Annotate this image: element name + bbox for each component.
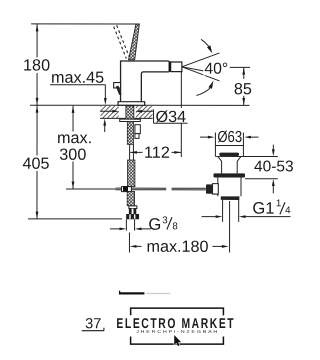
svg-text:40-53: 40-53 [254, 158, 294, 175]
svg-text:max.180: max.180 [146, 238, 208, 256]
svg-text:max.45: max.45 [51, 69, 104, 87]
svg-text:max.: max. [57, 129, 92, 147]
svg-text:3: 3 [162, 215, 168, 226]
svg-text:180: 180 [23, 57, 50, 75]
svg-text:112: 112 [144, 144, 170, 162]
svg-text:85: 85 [234, 80, 252, 98]
svg-text:37: 37 [85, 316, 101, 332]
svg-text:G: G [148, 215, 161, 234]
svg-text:405: 405 [23, 155, 50, 173]
svg-text:40°: 40° [204, 61, 228, 78]
svg-text:Ø63: Ø63 [217, 129, 242, 146]
svg-text:300: 300 [59, 146, 86, 164]
svg-text:4: 4 [285, 205, 291, 216]
svg-text:JHERCHPI-NZEGBAH: JHERCHPI-NZEGBAH [136, 329, 219, 334]
svg-text:G1: G1 [252, 199, 274, 218]
svg-text:1: 1 [276, 198, 281, 209]
svg-text:8: 8 [172, 221, 178, 232]
